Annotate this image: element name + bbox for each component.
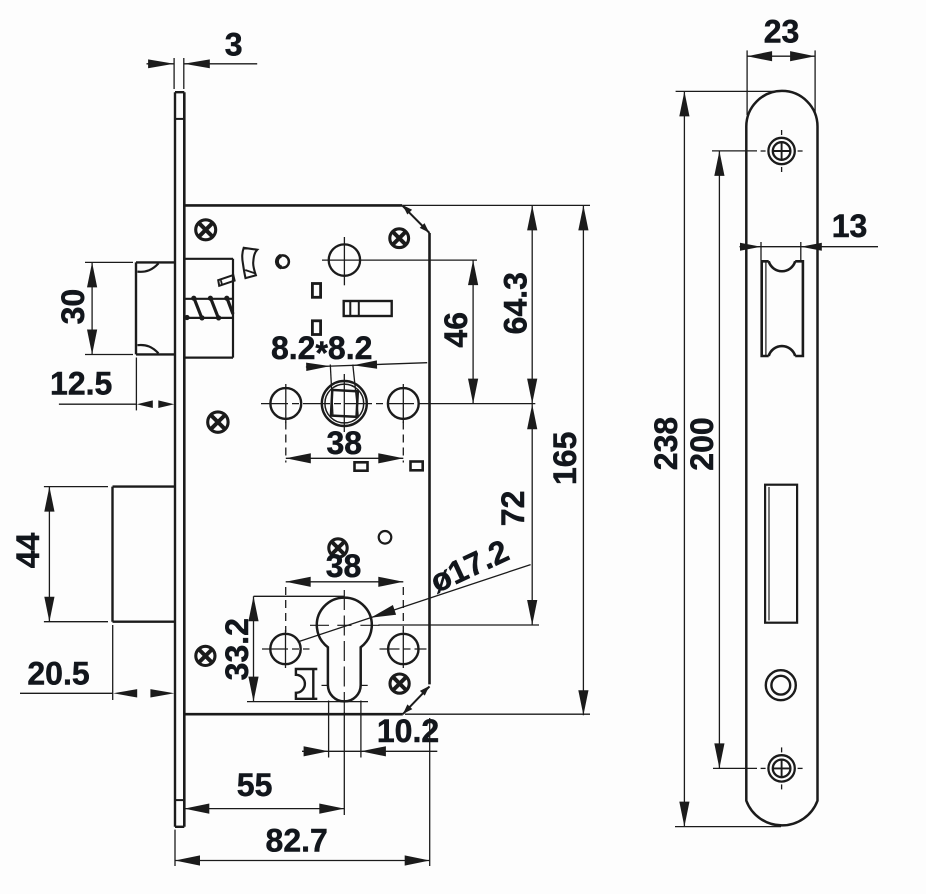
dim 44 deadbolt height — [10, 487, 108, 622]
lower row centreline — [262, 648, 310, 650]
dim 64.3 top edge to spindle — [403, 205, 590, 403]
svg-text:12.5: 12.5 — [50, 366, 112, 402]
small rectangular slot upper — [312, 284, 320, 298]
svg-text:44: 44 — [10, 533, 46, 569]
dim 72 spindle to cylinder — [378, 404, 539, 625]
spindle follower with 8.2 square — [322, 374, 367, 432]
svg-text:13: 13 — [832, 208, 868, 244]
right fixing hole (lower row) — [388, 630, 418, 668]
dim 46 hub to spindle — [322, 260, 478, 404]
dim 200 screw centres — [684, 151, 757, 769]
dim 55 backset — [184, 712, 344, 815]
right fixing hole (upper row) — [388, 384, 419, 423]
latch bolt body (inside case) — [184, 259, 233, 358]
latch spring coil — [184, 296, 233, 321]
faceplate side view (3mm plate) — [175, 92, 184, 827]
cylinder screw hole — [766, 670, 796, 700]
upper row centreline — [261, 403, 424, 405]
dim 38 upper hole spacing — [286, 422, 404, 464]
svg-text:33.2: 33.2 — [219, 618, 255, 680]
left fixing hole (upper row) — [270, 384, 301, 423]
screw mid-left — [208, 412, 228, 432]
top-right corner chamfer — [402, 205, 429, 233]
dim 82.7 case depth — [175, 718, 430, 866]
screw lower-left — [196, 646, 215, 665]
svg-text:46: 46 — [438, 312, 474, 348]
svg-text:165: 165 — [547, 432, 583, 485]
screw top-left — [196, 220, 216, 240]
small slot below 38 dim left — [355, 462, 368, 470]
deadbolt (thrown) — [113, 487, 176, 622]
striker faceplate front view — [746, 91, 817, 826]
latch cutout in faceplate — [762, 261, 803, 356]
svg-text:38: 38 — [326, 548, 362, 584]
dim 20.5 deadbolt projection — [20, 625, 174, 700]
dim 23 plate width — [747, 14, 815, 116]
dim 8.2*8.2 spindle square — [271, 330, 427, 417]
dim 30 latch height — [55, 262, 133, 354]
hub hole (top follower) — [329, 237, 360, 285]
svg-text:82.7: 82.7 — [266, 823, 328, 859]
bottom screw hole — [761, 747, 803, 789]
screw above cylinder — [329, 539, 347, 557]
deadbolt cutout in faceplate — [765, 485, 797, 623]
curved lever wedge — [242, 248, 257, 278]
svg-text:3: 3 — [225, 26, 243, 62]
leader dia 17.2 — [298, 532, 531, 642]
svg-text:72: 72 — [495, 491, 531, 527]
dim 165 case height — [405, 205, 590, 715]
dim 13 latch cutout width — [740, 208, 879, 260]
svg-text:23: 23 — [764, 14, 800, 50]
stop slide block — [344, 301, 392, 316]
screw top-right — [390, 229, 409, 248]
svg-text:8.2*8.2: 8.2*8.2 — [271, 330, 372, 371]
top screw hole — [761, 130, 803, 172]
small pin circle — [277, 255, 289, 267]
bottom-right corner chamfer — [403, 686, 430, 714]
svg-text:38: 38 — [327, 425, 363, 461]
euro cylinder hole — [310, 590, 380, 712]
small hole above cylinder — [379, 531, 392, 544]
svg-text:20.5: 20.5 — [27, 656, 89, 692]
dim 33.2 cylinder position — [219, 596, 368, 701]
dim 10.2 cylinder stem width — [302, 701, 439, 758]
svg-text:55: 55 — [237, 767, 273, 803]
latch bolt (protruding) — [136, 262, 175, 354]
lock body outline — [184, 205, 429, 714]
dim 238 plate length — [648, 91, 781, 826]
screw lower-right — [390, 674, 409, 693]
small rectangular slot lower — [312, 321, 320, 335]
svg-text:238: 238 — [648, 417, 684, 470]
small slot below 38 dim right — [411, 462, 423, 471]
svg-text:64.3: 64.3 — [498, 272, 534, 334]
svg-text:30: 30 — [55, 289, 91, 325]
left fixing hole (lower row) — [270, 630, 300, 668]
dim 38 lower hole spacing — [286, 548, 404, 632]
svg-text:200: 200 — [684, 417, 720, 470]
retainer clip next to cylinder — [296, 669, 317, 699]
dim 12.5 latch projection — [50, 358, 174, 411]
slanted pin bar — [218, 275, 234, 286]
dim 3 faceplate thickness — [147, 26, 258, 89]
